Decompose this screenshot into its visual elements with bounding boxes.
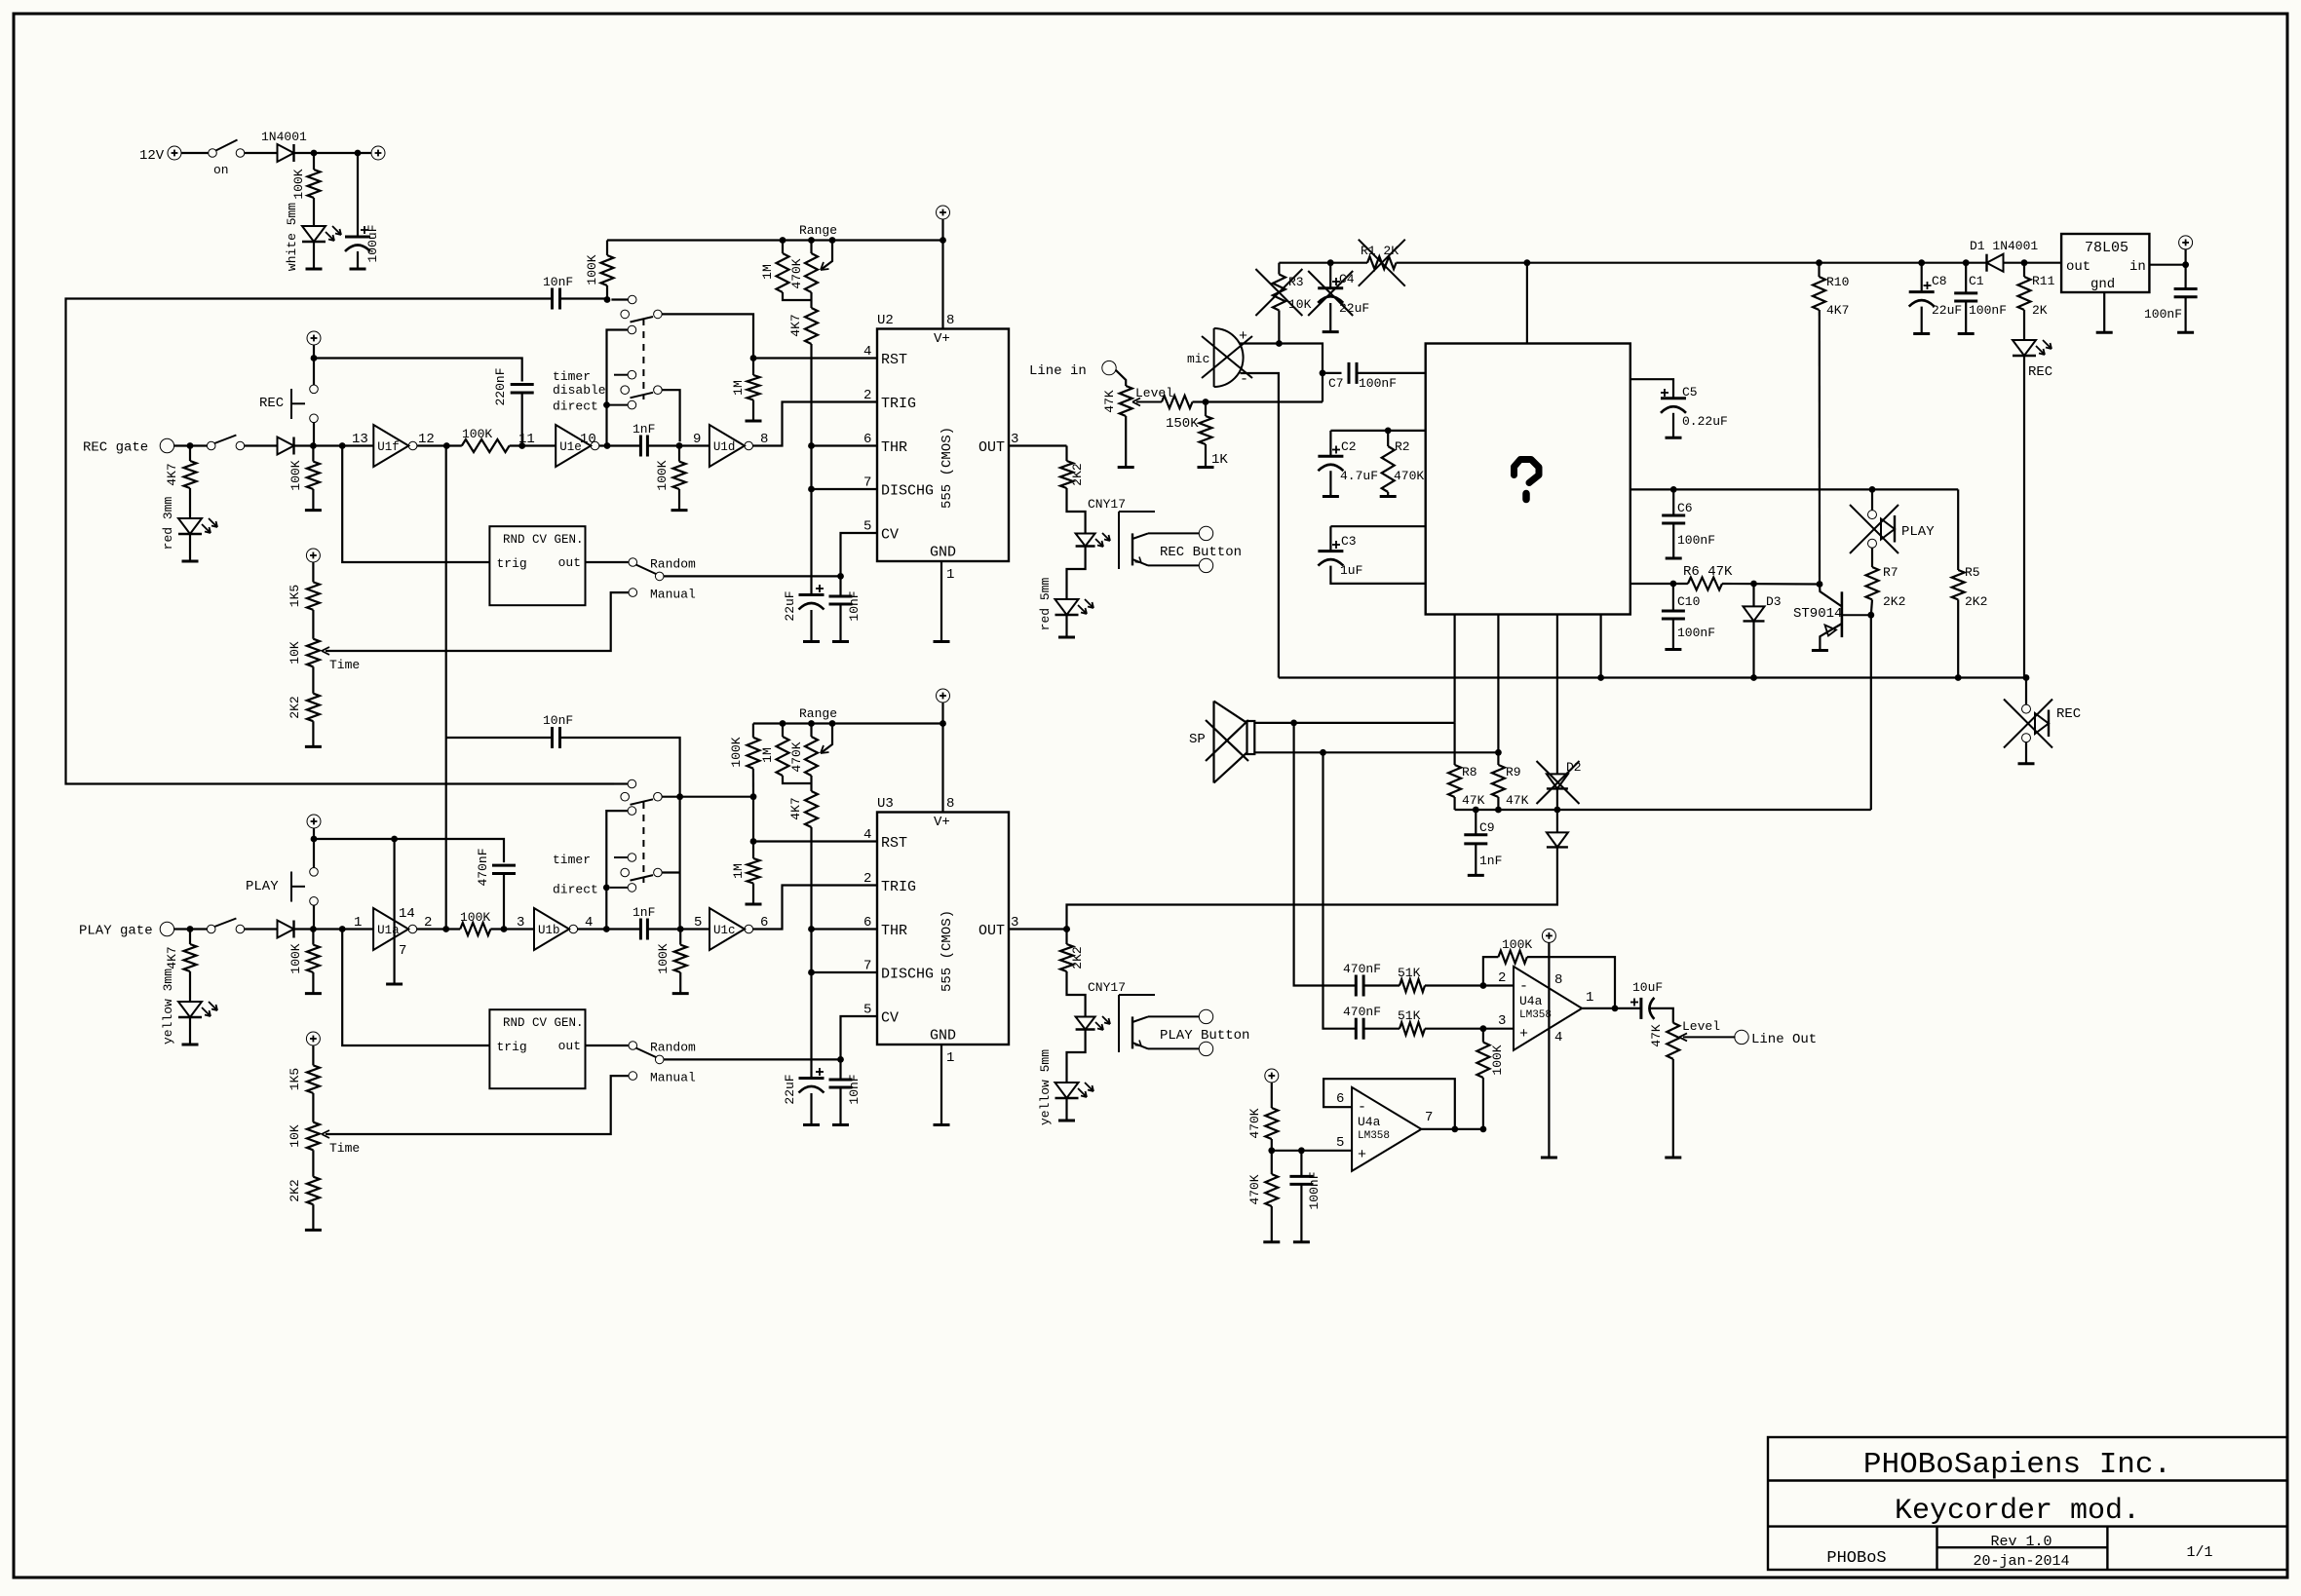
title rev (1990, 1534, 2052, 1550)
REC sw upper throw (628, 295, 636, 304)
svg-text:C3: C3 (1341, 534, 1357, 549)
resistor 100K (REC input pulldown) (307, 462, 320, 489)
svg-text:CV: CV (881, 527, 899, 544)
svg-text:3: 3 (1498, 1013, 1506, 1029)
wire R9 top stub (1497, 752, 1499, 765)
wire U4a power (1548, 942, 1550, 1158)
ground (10nF U2) (832, 640, 849, 643)
svg-text:trig: trig (497, 556, 527, 571)
svg-text:R1 2K: R1 2K (1361, 244, 1399, 258)
inverter U1e (556, 425, 599, 467)
pin name TRIG (U3) (881, 879, 916, 895)
svg-text:2K2: 2K2 (1965, 594, 1987, 609)
svg-text:9: 9 (693, 432, 701, 447)
resistor 4K7 (U3 timing) (805, 791, 818, 827)
pin 1 (U2) (946, 567, 954, 583)
label C10 (1677, 594, 1700, 609)
svg-text:2K2: 2K2 (288, 1179, 302, 1201)
wire pivot2 to 1nF node (REC) (662, 390, 679, 441)
wire 100uF to ground (357, 251, 359, 269)
wire 100K to gnd REC (312, 489, 314, 511)
REC sw1 lower throw (628, 325, 636, 334)
junction REC indicator (2023, 674, 2030, 681)
label 4K7 (timing U3) (788, 797, 803, 819)
pin name GND (U3) (930, 1028, 956, 1045)
svg-text:1M: 1M (760, 264, 775, 280)
ground (100K pulldown PLAY) (305, 992, 322, 995)
resistor 51K (A) (1400, 979, 1425, 992)
label 2K2 (R7) (1883, 594, 1905, 609)
pin 4 (U3) (863, 827, 871, 843)
svg-text:TRIG: TRIG (881, 396, 916, 412)
svg-text:13: 13 (352, 432, 368, 447)
svg-text:47K: 47K (1506, 793, 1529, 808)
svg-text:1M: 1M (731, 380, 746, 396)
svg-text:CV: CV (881, 1010, 899, 1027)
wire to 1M (REC) (752, 359, 754, 376)
svg-text:1nF: 1nF (1479, 854, 1502, 868)
pin 2 (U4a) (1498, 970, 1506, 986)
svg-text:100nF: 100nF (1359, 376, 1397, 391)
wire 1K5-10K REC (312, 610, 314, 639)
svg-text:10nF: 10nF (543, 275, 573, 289)
junction R11 (2021, 259, 2028, 266)
wire 2K2 to opto LED (REC) (1067, 488, 1086, 534)
svg-text:2K2: 2K2 (1070, 946, 1085, 969)
wire 100K to pivot row (PLAY) (752, 769, 754, 797)
svg-text:1uF: 1uF (1340, 563, 1362, 578)
svg-text:1/1: 1/1 (2186, 1544, 2212, 1561)
label timer (PLAY) (553, 853, 591, 867)
capacitor 1nF (REC) (640, 436, 647, 457)
pin 6 (760, 915, 768, 931)
svg-text:5: 5 (694, 915, 702, 931)
wire out to Random PLAY (586, 1045, 629, 1046)
svg-text:PLAY gate: PLAY gate (79, 924, 153, 939)
470K wiper (U3) (821, 724, 832, 754)
diode D1 1N4001 (1987, 254, 2004, 272)
label 10K (REC) (288, 641, 302, 665)
junction SP top tap (1290, 720, 1297, 727)
label 1N4001 (261, 130, 307, 144)
label CNY17 (PLAY) (1088, 980, 1126, 995)
wire 470nF B to 51K (1363, 1028, 1400, 1030)
ground (47K output) (1665, 1157, 1681, 1159)
svg-text:470K: 470K (1247, 1108, 1262, 1138)
svg-text:R7: R7 (1883, 565, 1898, 580)
pin 6 (U4b) (1336, 1091, 1344, 1107)
LED yellow 3mm (178, 1002, 217, 1017)
resistor 100K (1nF REC) (673, 462, 686, 489)
svg-text:3: 3 (517, 915, 524, 931)
svg-text:8: 8 (946, 796, 954, 812)
svg-text:-: - (1519, 978, 1528, 995)
label D3 (1766, 594, 1782, 609)
svg-text:TRIG: TRIG (881, 879, 916, 895)
label ? (unknown chip) (1515, 460, 1540, 500)
REC sw2 middle contact (621, 386, 630, 395)
wire R10 down to R6 node (1819, 310, 1821, 585)
label 150K (1166, 416, 1199, 432)
pin name RST (U3) (881, 835, 907, 852)
svg-text:out: out (558, 555, 581, 570)
label 1uF (1340, 563, 1362, 578)
junction R9 top (1495, 749, 1502, 756)
svg-text:CNY17: CNY17 (1088, 497, 1126, 512)
wire U1c out to TRIG (753, 886, 877, 930)
wire R9 bottom (1497, 797, 1499, 810)
junction R2 (1385, 428, 1392, 435)
junction 1nF out (REC) (676, 442, 683, 449)
resistor R5 2K2 (1952, 570, 1965, 599)
svg-text:yellow 3mm: yellow 3mm (161, 969, 175, 1045)
junction C8 (1918, 259, 1925, 266)
wire 47K to gnd (1125, 416, 1127, 468)
diode D3 (1744, 606, 1765, 621)
label 100nF (C10) (1677, 626, 1715, 640)
wire 150K to C7 node (1206, 400, 1323, 402)
wire 100K to U4b out (1482, 1078, 1484, 1129)
wire C7 to box (1357, 372, 1426, 374)
pin out (78L05) (2066, 259, 2090, 275)
wire C3 top (1329, 526, 1331, 551)
svg-text:470K: 470K (789, 258, 804, 288)
label V+ (U3) (934, 815, 950, 830)
resistor 100K (PLAY range-switch) (747, 738, 759, 769)
junction REC switch node (604, 296, 611, 303)
pin name THR (U2) (881, 439, 907, 456)
optocoupler CNY17 LED (REC) (1076, 533, 1110, 547)
resistor 100K (U1f-U1e) (462, 439, 510, 452)
wire 51K B out (1425, 1028, 1514, 1030)
resistor R11 2K (2018, 277, 2031, 310)
junction PLAY trig (339, 926, 346, 932)
ground (GND U2) (934, 640, 950, 643)
junction 1nF out (PLAY) (677, 926, 684, 932)
svg-text:C2: C2 (1341, 439, 1357, 454)
svg-text:SP: SP (1189, 732, 1206, 747)
label ST9014 (1793, 606, 1842, 622)
junction rail-V+ (U3) (940, 720, 946, 727)
wire C7 left (1323, 372, 1342, 374)
wire 150K-junction (1193, 400, 1207, 402)
wire U4b feedback (1323, 1079, 1455, 1129)
diode (direct drive) (1547, 832, 1568, 847)
pin name GND (U2) (930, 545, 956, 561)
+V terminal (U3) (937, 689, 950, 703)
wire R6 to collector (1722, 583, 1820, 586)
wire REC ind gnd (2025, 742, 2027, 764)
svg-text:R11: R11 (2032, 274, 2055, 288)
IC recorder chip box (1426, 344, 1630, 615)
optocoupler CNY17 phototransistor (REC) (1119, 512, 1213, 573)
label PLAY Button (1160, 1028, 1249, 1044)
ground (C9) (1468, 874, 1484, 877)
resistor 100K (1nF PLAY) (674, 945, 687, 972)
wire box stub 3 (to D2) (1556, 615, 1558, 775)
label 47K (R8) (1462, 793, 1485, 808)
ground (C8) (1913, 332, 1930, 335)
svg-text:D1 1N4001: D1 1N4001 (1970, 239, 2038, 253)
label 100K (range PLAY) (729, 737, 744, 767)
resistor 470K (upper) (1265, 1108, 1278, 1139)
svg-text:Manual: Manual (650, 1071, 696, 1085)
label R2 (1395, 439, 1410, 454)
wire rail U2 (607, 239, 943, 241)
wire switch-diode PLAY (245, 928, 278, 930)
wire DISCHG pin (U3) (812, 971, 878, 973)
svg-text:Range: Range (799, 223, 837, 238)
wire OUT (U2) (1009, 444, 1067, 446)
svg-text:-: - (1358, 1099, 1366, 1116)
wire 1M to gnd (REC) (752, 400, 754, 422)
wire 100K top to rail (REC) (606, 241, 608, 256)
wire trig to RND PLAY (342, 930, 489, 1046)
svg-text:U1f: U1f (377, 440, 400, 454)
capacitor C8 22uF (1909, 282, 1935, 307)
svg-text:470nF: 470nF (476, 848, 490, 886)
+12V terminal (371, 146, 385, 160)
label R11 (2032, 274, 2055, 288)
wire to 100K LED resistor (313, 153, 315, 170)
capacitor 470nF (A) (1356, 975, 1363, 997)
svg-text:R2: R2 (1395, 439, 1410, 454)
svg-text:white 5mm: white 5mm (285, 203, 299, 271)
ground (10nF U3) (832, 1123, 849, 1126)
ground (22uF U3) (803, 1123, 820, 1126)
label REC gate (83, 440, 148, 456)
label 10nF (A) (543, 275, 573, 289)
resistor R1 2K (deleted) (1367, 256, 1397, 269)
wire +V to 1K5 PLAY (312, 1045, 314, 1066)
label 2K (R11) (2032, 303, 2048, 318)
label 47K (input) (1102, 390, 1117, 413)
junction box V+ feed (1524, 259, 1531, 266)
wire rail left (1279, 262, 1367, 264)
ground (red 3mm LED) (182, 560, 199, 563)
wire 10uF to 47K (1650, 1008, 1673, 1023)
pin 3 (517, 915, 524, 931)
label 12V (139, 148, 165, 164)
label white 5mm (285, 203, 299, 271)
svg-text:5: 5 (1336, 1135, 1344, 1151)
label 220nF (493, 367, 508, 405)
wire R5 top (1957, 489, 1959, 570)
svg-text:C6: C6 (1677, 501, 1693, 515)
label 22uF (C4) (1339, 301, 1369, 316)
junction Q1 base (1867, 612, 1874, 619)
capacitor 22uF (U2) (799, 585, 825, 610)
label C6 (1677, 501, 1693, 515)
junction pivot-100K (PLAY) (750, 793, 757, 800)
label 4K7 (REC) (165, 463, 179, 485)
wire U4b out row (1421, 1128, 1483, 1130)
wire opto LED to yellow 5mm (PLAY) (1067, 1030, 1086, 1083)
junction U4b out (1480, 1126, 1487, 1133)
pin 1 (354, 915, 362, 931)
resistor 4K7 (PLAY gate LED) (184, 944, 197, 971)
wire +V to node (REC btn) (313, 345, 315, 359)
wire to 100K (1nF REC) (678, 446, 680, 462)
label R3 (1288, 275, 1304, 289)
speaker SP (1206, 702, 1254, 783)
wire box stub 4 (to common) (1599, 615, 1601, 678)
label 100nF (bias) (1307, 1171, 1322, 1209)
junction U1a out (442, 926, 449, 932)
label SP (1189, 732, 1206, 747)
label 470nF (A) (1343, 962, 1381, 976)
wire base node down (1870, 615, 1872, 810)
wire 10nF to PLAY switch node (560, 738, 680, 797)
svg-text:1N4001: 1N4001 (261, 130, 307, 144)
pin gnd (78L05) (2090, 277, 2115, 292)
junction noninv input (1480, 1025, 1487, 1032)
label 470K (range U2) (789, 258, 804, 288)
wire button to row (PLAY) (313, 905, 315, 929)
ground (U4a pin4) (1541, 1157, 1557, 1159)
power switch 'on' (209, 140, 245, 158)
svg-text:RND CV GEN.: RND CV GEN. (503, 1016, 584, 1030)
svg-text:47K: 47K (1102, 390, 1117, 413)
svg-text:red 3mm: red 3mm (161, 496, 175, 550)
label U3 (877, 796, 894, 812)
optocoupler CNY17 phototransistor (PLAY) (1119, 995, 1213, 1056)
junction 12V in node (2182, 261, 2189, 268)
capacitor C3 1uF (1318, 541, 1343, 566)
pin 8 (U3) (946, 796, 954, 812)
junction THR (U2) (808, 442, 815, 449)
resistor 1M (REC reset) (748, 375, 760, 400)
svg-text:470K: 470K (1394, 469, 1424, 483)
wire fb right (1527, 957, 1615, 1008)
svg-text:R10: R10 (1826, 275, 1849, 289)
svg-text:OUT: OUT (978, 439, 1005, 456)
svg-text:51K: 51K (1398, 966, 1421, 980)
svg-text:Random: Random (650, 1041, 696, 1055)
pin 4 (585, 915, 593, 931)
IC U2 555 box (877, 329, 1009, 562)
junction R10 (1816, 259, 1822, 266)
wire Manual to Time pot REC (326, 592, 629, 651)
svg-text:RST: RST (881, 352, 907, 368)
svg-text:10K: 10K (288, 641, 302, 665)
wire 1K to gnd (1205, 444, 1207, 468)
label 10K (PLAY) (288, 1124, 302, 1148)
REC sw1 middle contact (621, 310, 630, 319)
wire common rail (1279, 676, 2026, 678)
wire 470K to gnd (1271, 1206, 1273, 1242)
label mic (1187, 352, 1209, 366)
label direct (REC) (553, 399, 598, 414)
svg-text:100K: 100K (460, 910, 490, 925)
wire 22uF gnd (U3) (810, 1093, 812, 1125)
label Range (U3) (799, 706, 837, 721)
junction C10 (1670, 581, 1677, 588)
wire +V to node (PLAY btn) (313, 828, 315, 839)
svg-text:4K7: 4K7 (1826, 303, 1849, 318)
ground (red 5mm REC) (1058, 636, 1075, 639)
resistor 4K7 (U2 timing) (805, 308, 818, 344)
svg-text:4K7: 4K7 (165, 463, 179, 485)
wire C3 bottom to box (1330, 566, 1425, 584)
Random contact (PLAY) (629, 1042, 637, 1050)
svg-text:Random: Random (650, 557, 696, 572)
wire to RST (PLAY) (752, 797, 754, 842)
wire OUT to 2K2 (REC) (1065, 446, 1067, 462)
wire C3 to box (1330, 525, 1425, 527)
mic minus (1240, 371, 1248, 388)
wire junction to 1K (1205, 402, 1207, 417)
svg-text:Line in: Line in (1029, 363, 1087, 379)
wire R6 row (1630, 583, 1688, 585)
wire 78L05 gnd pin (2103, 292, 2105, 332)
label trig (PLAY) (497, 1040, 527, 1054)
wire 470K top (U3) (810, 724, 812, 738)
svg-text:red 5mm: red 5mm (1038, 577, 1053, 630)
svg-text:DISCHG: DISCHG (881, 483, 934, 500)
junction 220nF bottom (518, 442, 525, 449)
junction pivot-10nF (PLAY) (676, 793, 683, 800)
junction 100nF (bias) (1298, 1147, 1305, 1154)
label C2 (1341, 439, 1357, 454)
svg-text:1: 1 (1586, 990, 1593, 1006)
wire 470K top (U2) (810, 241, 812, 254)
svg-text:11: 11 (518, 432, 535, 447)
label 2K2 (R5) (1965, 594, 1987, 609)
+V terminal (Time REC) (306, 549, 320, 562)
pin name OUT (U2) (978, 439, 1005, 456)
wire R5 bottom (1957, 599, 1959, 677)
junction direct throw (REC) (603, 401, 610, 408)
wire 10nF to REC switch node (560, 297, 608, 299)
wire C9 gnd (1475, 844, 1476, 876)
pin 3 (U2) (1011, 432, 1018, 447)
PLAY sw1 pivot (631, 792, 663, 804)
wire SP bottom (1254, 751, 1498, 753)
label RND CV GEN (PLAY) (503, 1016, 584, 1030)
PLAY direct throw (610, 884, 636, 893)
wire switch-diode REC (245, 444, 278, 446)
svg-text:4: 4 (1554, 1030, 1562, 1045)
wire out to 10uF (1615, 1007, 1641, 1009)
svg-text:1M: 1M (731, 863, 746, 879)
ground (100uF) (350, 268, 366, 271)
pin 8 (760, 432, 768, 447)
svg-text:CNY17: CNY17 (1088, 980, 1126, 995)
ground (47K input) (1118, 466, 1134, 469)
wire LED to ground (313, 242, 315, 269)
label 51K (B) (1398, 1008, 1421, 1023)
wire V+ (U3) (941, 703, 943, 813)
indicator REC (deleted LED) (2004, 700, 2052, 748)
label yellow 5mm (PLAY) (1038, 1049, 1053, 1125)
label D1 1N4001 (1970, 239, 2038, 253)
capacitor C2 4.7uF (1318, 446, 1343, 472)
capacitor 10nF (REC trigger coupling) (553, 288, 560, 310)
label REC (LED) (2028, 364, 2052, 380)
wire mic- to common (1241, 373, 1279, 678)
wire button to row (REC) (313, 423, 315, 446)
wire LED to gnd REC (189, 534, 191, 561)
label V+ (U2) (934, 331, 950, 347)
capacitor C4 22uF (deleted) (1318, 278, 1343, 303)
wire yellow 5mm to gnd (PLAY) (1065, 1098, 1067, 1121)
wire diode to inverter REC (294, 444, 374, 446)
wire 1M top (U3) (782, 724, 784, 738)
pin 4 (U2) (863, 344, 871, 360)
resistor 1M (range U2) (777, 253, 789, 292)
svg-text:470nF: 470nF (1343, 962, 1381, 976)
